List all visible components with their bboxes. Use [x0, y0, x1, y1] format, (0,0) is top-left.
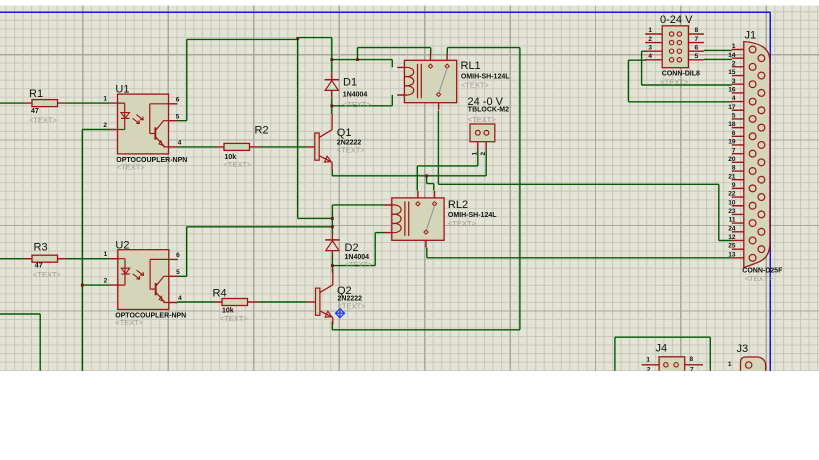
svg-text:5: 5 [695, 53, 699, 60]
diode D1 cathode bar [325, 79, 339, 81]
wire CONN-DIL8 pin3 to J1 pin3 [642, 51, 732, 85]
wire tee to RL1 coil top [332, 60, 393, 68]
sheet border (blue) [0, 12, 770, 371]
relay RL1 contact pins [431, 53, 448, 110]
relay RL1 coil [404, 67, 413, 95]
terminal block holes [475, 130, 480, 135]
resistor R2 body [224, 143, 250, 150]
wire R3 input from left edge [0, 258, 24, 260]
wire +V over to x=333 [298, 217, 333, 219]
svg-text:1: 1 [104, 251, 108, 258]
svg-text:<TEXT>: <TEXT> [115, 318, 144, 327]
wire +V down to D1 cathode [331, 38, 333, 73]
svg-text:<TEXT>: <TEXT> [448, 219, 477, 228]
relay RL2 contact pins [418, 191, 435, 248]
svg-text:20: 20 [728, 156, 736, 163]
resistor R4 body [222, 299, 248, 306]
svg-text:U1: U1 [115, 84, 129, 96]
relay RL2 switch blade [426, 206, 434, 231]
svg-text:1: 1 [728, 361, 732, 368]
wire D2 anode / Q2 collector node [331, 257, 333, 273]
wire D1 anode / Q1 collector node [331, 98, 333, 114]
wire CONN-DIL8 pin5 to J1 pin14 [704, 58, 732, 60]
svg-text:R1: R1 [29, 88, 43, 100]
svg-text:4: 4 [648, 53, 652, 60]
terminal block 24-0V body [470, 124, 495, 142]
wire TBLOCK pin1 to RL2 left contact [417, 166, 478, 191]
connector J3 body (clipped) [741, 357, 766, 377]
svg-text:1: 1 [646, 357, 650, 364]
wire 0V across to Q2 emitter [332, 322, 520, 330]
diode D1 triangle [325, 81, 338, 91]
relay RL2 coil [392, 205, 401, 233]
wire RL1 common to J1 pin12 [438, 184, 731, 240]
svg-text:<TEXT>: <TEXT> [223, 160, 252, 169]
wire U2 pin5 branch [177, 227, 332, 276]
svg-text:<TEXT>: <TEXT> [660, 78, 689, 87]
wire 0V row Q1 emitter to TBLOCK pin2 [332, 175, 486, 177]
resistor R1 body [32, 100, 58, 107]
svg-text:25: 25 [728, 243, 736, 250]
opto U1 light arrows [133, 118, 140, 123]
wire R2 to Q1 base [259, 146, 307, 148]
svg-text:R2: R2 [255, 125, 269, 137]
svg-text:<TEXT>: <TEXT> [33, 270, 62, 279]
wire U2 pin2 branch [82, 284, 110, 286]
svg-text:RL1: RL1 [461, 60, 481, 72]
diode D2 triangle [326, 241, 339, 251]
connector CONN-DIL8 body [662, 26, 688, 68]
svg-text:0-24 V: 0-24 V [660, 14, 693, 26]
transistor Q1 base stub [307, 146, 315, 148]
svg-text:14: 14 [728, 52, 736, 59]
wire RL2 coil bottom loop [332, 233, 384, 266]
wire CONN-DIL8 pin4 to J1 pin4 [628, 60, 731, 102]
transistor Q2 base bar [316, 288, 320, 315]
svg-text:15: 15 [728, 69, 736, 76]
opto U1 phototransistor [150, 104, 169, 134]
svg-text:6: 6 [695, 44, 699, 51]
diode D2 pins [331, 232, 333, 258]
svg-text:6: 6 [732, 130, 736, 137]
wire loop around J4 [615, 337, 710, 371]
opto U1 LED branch [118, 103, 125, 129]
svg-text:D2: D2 [345, 242, 359, 254]
wire RL2 right contact jog to 0V row [427, 176, 434, 191]
svg-text:22: 22 [728, 191, 736, 198]
svg-text:47: 47 [31, 108, 39, 115]
relay RL1 switch blade [439, 68, 447, 93]
svg-text:2: 2 [104, 278, 108, 285]
wire CONN-DIL8 pin6 to J1 pin1 [704, 49, 732, 51]
svg-text:16: 16 [728, 87, 736, 94]
svg-text:J4: J4 [656, 343, 668, 355]
svg-text:11: 11 [729, 217, 736, 224]
transistor Q2 base stub [307, 301, 316, 303]
wire RL1 common down [437, 111, 439, 185]
relay RL1 body [404, 60, 456, 102]
wire RL2 common to J1 pin13 [427, 248, 732, 258]
svg-text:<TEXT>: <TEXT> [338, 302, 367, 311]
svg-text:<TEXT>: <TEXT> [343, 100, 372, 109]
svg-text:8: 8 [695, 27, 699, 34]
svg-text:1: 1 [472, 152, 479, 156]
relay RL2 coil pins [385, 205, 392, 233]
svg-text:6: 6 [176, 97, 180, 104]
svg-text:<TEXT>: <TEXT> [117, 163, 146, 172]
relay RL2 contact terminals [416, 202, 420, 206]
wire +V rail top [187, 38, 332, 40]
svg-text:8: 8 [732, 165, 736, 172]
svg-text:2: 2 [732, 60, 736, 67]
J4 pin holes [664, 363, 668, 367]
connector J1 body [744, 42, 770, 268]
opto U1 LED diode [121, 113, 129, 119]
relay RL1 coil pins [397, 67, 404, 95]
svg-text:<TEXT>: <TEXT> [337, 145, 366, 154]
svg-text:3: 3 [732, 78, 736, 85]
svg-text:1: 1 [103, 96, 107, 103]
svg-text:47: 47 [35, 263, 43, 270]
relay RL2 core [405, 202, 409, 236]
wire vertical x=333 to D2 cathode [331, 205, 333, 234]
svg-text:1: 1 [648, 27, 652, 34]
J1 pin holes [749, 46, 756, 53]
J4 pin lines [642, 365, 703, 374]
svg-text:D1: D1 [343, 77, 357, 89]
wire RL1 right contact to 0V vertical [447, 48, 520, 54]
svg-text:10: 10 [728, 199, 736, 206]
svg-text:4: 4 [178, 140, 182, 147]
wire R4 to Q2 base [259, 301, 307, 303]
svg-text:5: 5 [176, 113, 180, 120]
resistor R3 pins [24, 258, 67, 260]
svg-text:4: 4 [732, 95, 736, 102]
svg-text:R3: R3 [34, 242, 48, 254]
wire RL1 left contact to coil net [358, 48, 431, 60]
svg-text:<TEXT>: <TEXT> [220, 314, 249, 323]
transistor Q2 emitter [320, 311, 333, 325]
diode D2 cathode bar [325, 239, 339, 241]
svg-text:TBLOCK-M2: TBLOCK-M2 [468, 107, 509, 114]
svg-text:9: 9 [732, 182, 736, 189]
CONN-DIL8 pin lines [645, 34, 704, 60]
CONN-DIL8 pin holes [669, 32, 673, 36]
wire +V long vertical x=298 [297, 39, 299, 218]
svg-text:13: 13 [728, 251, 736, 258]
svg-text:19: 19 [728, 139, 736, 146]
transistor Q2 emitter arrowhead [325, 311, 332, 317]
transistor Q1 emitter [319, 156, 332, 170]
wire U2 pin4 to R4 [177, 301, 215, 303]
wire R3 to U2 pin1 [66, 258, 110, 260]
svg-text:17: 17 [728, 104, 736, 111]
opto U2 light arrows [133, 274, 140, 279]
opto U2 LED branch [118, 259, 125, 285]
blue marker at Q2 emitter [336, 309, 345, 318]
transistor Q2 collector [320, 269, 333, 293]
svg-text:24: 24 [728, 225, 736, 232]
wire U1 pin5 up to +V rail [178, 39, 187, 120]
svg-text:2: 2 [480, 152, 487, 156]
svg-text:5: 5 [732, 113, 736, 120]
svg-text:2: 2 [103, 122, 107, 129]
relay RL2 body [392, 198, 444, 240]
svg-text:1N4004: 1N4004 [343, 91, 368, 98]
opto-coupler U2 body [118, 250, 169, 310]
wire U1 pin2 to ground bus [82, 129, 109, 131]
J1 pin lines [732, 50, 744, 258]
svg-text:<TEXT>: <TEXT> [461, 80, 490, 89]
svg-text:J1: J1 [745, 30, 757, 42]
opto U2 pin stubs [110, 259, 178, 303]
wire Q1 emitter down [331, 170, 333, 176]
svg-text:21: 21 [728, 173, 736, 180]
transistor Q1 collector [319, 114, 332, 138]
svg-text:Q1: Q1 [337, 127, 352, 139]
svg-text:<TEXT>: <TEXT> [29, 116, 58, 125]
relay RL1 core [418, 64, 422, 98]
junction dots [330, 58, 333, 61]
opto-coupler U1 body [118, 94, 169, 154]
svg-text:CONN-DIL8: CONN-DIL8 [662, 70, 700, 77]
svg-text:7: 7 [695, 36, 699, 43]
wire tee to RL1 coil bottom [332, 95, 393, 106]
resistor R2 pins [216, 146, 259, 148]
svg-text:2: 2 [648, 36, 652, 43]
svg-text:12: 12 [728, 234, 736, 241]
svg-text:3: 3 [648, 44, 652, 51]
svg-text:<TEXT>: <TEXT> [745, 274, 774, 283]
wire TBLOCK pin1 down [477, 150, 479, 166]
svg-text:J3: J3 [737, 343, 749, 355]
svg-text:1: 1 [732, 43, 736, 50]
svg-text:7: 7 [732, 147, 736, 154]
wire bottom left stub [0, 314, 40, 371]
svg-text:5: 5 [176, 269, 180, 276]
wire RL2 coil top [332, 204, 384, 206]
svg-text:U2: U2 [115, 240, 129, 252]
relay RL1 contact terminals [428, 64, 432, 68]
opto U1 pin stubs [110, 103, 178, 147]
svg-text:4: 4 [178, 295, 182, 302]
transistor Q1 emitter arrowhead [325, 156, 332, 162]
svg-text:18: 18 [728, 121, 736, 128]
transistor Q1 base bar [315, 133, 319, 160]
connector J4 body [659, 357, 685, 398]
svg-text:<TEXT>: <TEXT> [345, 260, 374, 269]
wire R1 to U1 pin1 [66, 102, 110, 104]
svg-text:RL2: RL2 [448, 199, 468, 211]
svg-text:8: 8 [690, 356, 694, 363]
resistor R3 body [32, 255, 58, 262]
resistor R1 pins [24, 102, 66, 104]
wire TBLOCK pin2 down [485, 150, 487, 176]
opto U2 LED diode [121, 268, 129, 274]
svg-text:6: 6 [176, 252, 180, 259]
opto U2 phototransistor [150, 259, 169, 289]
wire vertical bus x=82 (U1 pin2 / U2 pin2) [81, 130, 83, 371]
diode D1 pins [331, 72, 333, 98]
wire R1 input from left edge [0, 102, 24, 104]
svg-text:OMIH-SH-124L: OMIH-SH-124L [448, 212, 497, 219]
wire U1 pin4 to R2 [178, 146, 217, 148]
wire long 0V vertical x=520 [519, 48, 521, 330]
resistor R4 pins [215, 301, 259, 303]
terminal block pins [478, 142, 486, 150]
svg-text:23: 23 [728, 208, 736, 215]
svg-text:R4: R4 [213, 288, 227, 300]
J3 pin hole [746, 362, 752, 368]
svg-text:<TEXT>: <TEXT> [468, 115, 497, 124]
